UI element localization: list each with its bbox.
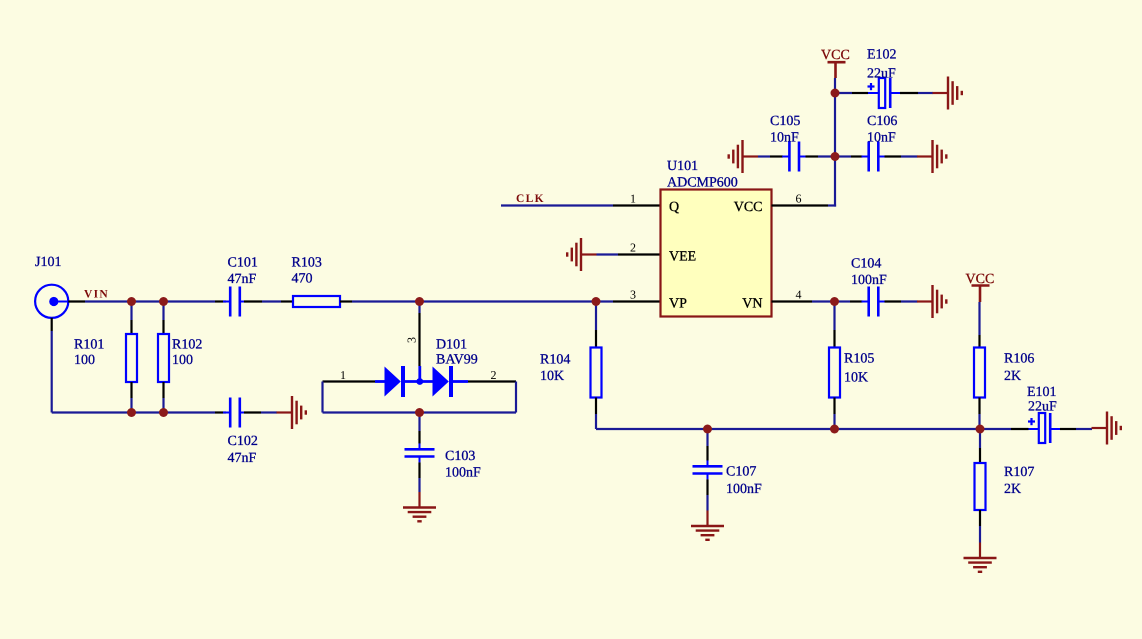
ground at VEE — [567, 238, 596, 271]
power port VCC right — [966, 272, 995, 302]
svg-text:VEE: VEE — [669, 250, 696, 265]
wire VP node to pin 3 — [596, 300, 613, 302]
svg-text:10nF: 10nF — [867, 131, 896, 146]
pin 1 Q stub — [613, 204, 661, 206]
capacitor C105 — [770, 142, 818, 172]
pin 3 VP stub — [613, 300, 661, 302]
svg-text:100nF: 100nF — [851, 273, 887, 288]
wire C105 to VCC node — [818, 155, 835, 157]
ground at C104 — [917, 285, 946, 318]
wire VCC vertical E102 node to VCC port — [834, 78, 836, 93]
wire VN node to C104 — [835, 300, 851, 302]
svg-text:C107: C107 — [726, 465, 756, 480]
ground at E101 — [1092, 412, 1121, 445]
svg-text:C101: C101 — [228, 256, 258, 271]
junction bottom at R102 — [159, 408, 168, 417]
svg-text:R104: R104 — [540, 353, 570, 368]
wire VCC node to C106 — [835, 155, 851, 157]
svg-text:E101: E101 — [1027, 385, 1057, 400]
svg-text:2: 2 — [630, 241, 636, 255]
wire bottom R101 to R102 — [132, 411, 164, 413]
ground at C105 — [729, 140, 758, 173]
ground at E102 — [933, 77, 962, 110]
wire C106 to ground — [901, 155, 918, 157]
svg-text:47nF: 47nF — [228, 272, 257, 287]
connector J101 — [35, 285, 85, 331]
capacitor C101 — [215, 287, 262, 317]
svg-text:R106: R106 — [1004, 352, 1034, 367]
resistor R104 — [591, 302, 602, 430]
wire E101 to ground — [1076, 428, 1092, 430]
capacitor E102 electrolytic — [835, 78, 918, 108]
svg-text:100: 100 — [74, 353, 95, 368]
svg-text:2K: 2K — [1004, 482, 1021, 497]
wire bottom R102 to C102 — [164, 411, 216, 413]
wire D101 right leg — [515, 382, 517, 413]
svg-text:47nF: 47nF — [228, 451, 257, 466]
wire C107 to ground — [706, 495, 708, 511]
svg-text:100nF: 100nF — [726, 482, 762, 497]
svg-text:ADCMP600: ADCMP600 — [667, 176, 738, 191]
svg-text:D101: D101 — [436, 338, 467, 353]
wire C102 to ground — [261, 411, 277, 413]
junction bottom at R101 — [127, 408, 136, 417]
pin 2 VEE stub — [618, 253, 661, 255]
junction D101 bottom — [415, 408, 424, 417]
resistor R106 — [974, 302, 985, 429]
wire rail C107 to R105 — [708, 428, 835, 430]
junction VCC at C105 row — [831, 152, 840, 161]
wire bottom J101 to R101 — [52, 411, 132, 413]
svg-text:3: 3 — [405, 337, 419, 343]
svg-text:22uF: 22uF — [1028, 400, 1057, 415]
svg-text:VIN: VIN — [84, 289, 109, 301]
svg-text:R107: R107 — [1004, 465, 1034, 480]
svg-text:2K: 2K — [1004, 369, 1021, 384]
svg-text:C105: C105 — [770, 114, 800, 129]
wire J101 shield down — [51, 331, 53, 413]
svg-text:R103: R103 — [292, 256, 322, 271]
capacitor C103 — [405, 413, 435, 479]
svg-text:VCC: VCC — [734, 200, 763, 215]
junction rail at C107 — [703, 425, 712, 434]
junction VN node — [830, 297, 839, 306]
svg-text:10K: 10K — [540, 369, 564, 384]
svg-text:VP: VP — [669, 297, 687, 312]
resistor R103 — [281, 296, 352, 307]
junction VCC at E102 row — [831, 89, 840, 98]
wire D101 bottom right — [420, 411, 517, 413]
wire VIN J101 to R101 — [85, 300, 132, 302]
svg-text:22uF: 22uF — [867, 67, 896, 82]
wire D101 left leg — [321, 382, 323, 413]
capacitor C107 — [693, 429, 723, 495]
wire D101 bottom left — [323, 411, 420, 413]
wire VCC vertical pin6 to C105 node — [834, 157, 836, 207]
svg-text:4: 4 — [796, 288, 802, 302]
svg-text:R101: R101 — [74, 338, 104, 353]
svg-text:C106: C106 — [867, 114, 897, 129]
capacitor C102 — [215, 398, 261, 428]
svg-text:10K: 10K — [844, 371, 868, 386]
capacitor C106 — [851, 142, 901, 172]
svg-text:Q: Q — [669, 200, 679, 215]
wire pin 6 corner — [828, 204, 836, 206]
svg-text:VN: VN — [742, 297, 762, 312]
junction at D101 tap — [415, 297, 424, 306]
pin 6 VCC stub — [772, 204, 829, 206]
resistor R101 — [126, 302, 137, 413]
ground at C106 — [917, 140, 946, 173]
junction rail at R105 — [830, 425, 839, 434]
ground below C103 — [403, 492, 436, 521]
svg-text:R102: R102 — [172, 338, 202, 353]
svg-text:BAV99: BAV99 — [436, 353, 478, 368]
svg-text:C103: C103 — [445, 449, 475, 464]
pin 4 VN stub — [772, 300, 813, 302]
svg-text:CLK: CLK — [516, 193, 545, 205]
svg-text:E102: E102 — [867, 48, 897, 63]
svg-text:6: 6 — [796, 192, 802, 206]
capacitor C104 — [850, 287, 901, 317]
wire VIN R102 to C101 — [164, 300, 216, 302]
svg-text:2: 2 — [491, 368, 497, 382]
svg-text:C104: C104 — [851, 257, 881, 272]
svg-text:J101: J101 — [35, 255, 61, 270]
resistor R105 — [829, 302, 840, 430]
wire rail R104 to C107 — [596, 428, 708, 430]
wire pin 4 to VN node — [812, 300, 835, 302]
svg-text:470: 470 — [292, 272, 313, 287]
junction VIN at R102 — [159, 297, 168, 306]
wire D101 pin 3 drop — [418, 302, 420, 367]
svg-text:100nF: 100nF — [445, 466, 481, 481]
wire VEE ground to pin 2 — [597, 253, 619, 255]
svg-text:R105: R105 — [844, 352, 874, 367]
junction VIN at R101 — [127, 297, 136, 306]
wire C105 ground side — [758, 155, 770, 157]
junction rail at R106 — [976, 425, 985, 434]
ground at C102 — [277, 396, 306, 429]
wire rail R105 to R106 — [835, 428, 981, 430]
wire C101 to R103 — [262, 300, 281, 302]
wire CLK to pin 1 — [501, 204, 613, 206]
resistor R102 — [158, 302, 169, 413]
wire VCC vertical C105 node to E102 node — [834, 93, 836, 157]
svg-text:VCC: VCC — [821, 48, 850, 63]
wire E102 to ground — [918, 92, 933, 94]
wire C103 to ground — [418, 478, 420, 492]
op-amp U101 comparator body — [661, 190, 772, 317]
svg-text:U101: U101 — [667, 159, 698, 174]
power port VCC top — [821, 48, 850, 78]
ground below R107 — [964, 543, 997, 572]
wire R103 to D101 node — [352, 300, 420, 302]
capacitor E101 electrolytic — [980, 413, 1076, 443]
svg-text:1: 1 — [340, 368, 346, 382]
ground below C107 — [691, 511, 724, 540]
wire VIN R101 to R102 — [132, 300, 164, 302]
wire D101 tap to VP node — [420, 300, 597, 302]
svg-text:3: 3 — [630, 288, 636, 302]
svg-text:C102: C102 — [228, 434, 258, 449]
wire C104 to ground — [901, 300, 918, 302]
svg-text:10nF: 10nF — [770, 131, 799, 146]
svg-text:1: 1 — [630, 192, 636, 206]
resistor R107 — [975, 429, 986, 543]
junction at VP node — [592, 297, 601, 306]
svg-text:100: 100 — [172, 353, 193, 368]
diode D101 — [323, 366, 517, 397]
